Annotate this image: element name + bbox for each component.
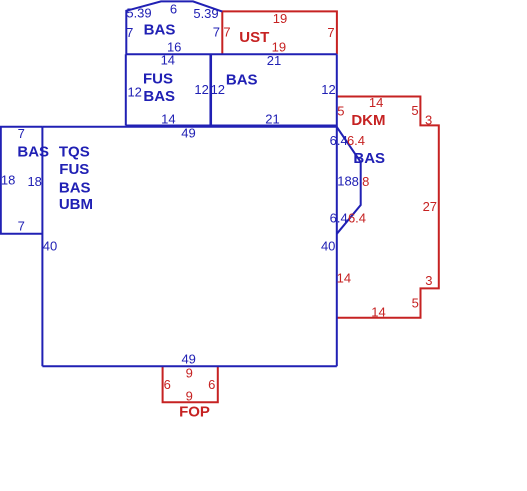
svg-text:9: 9 xyxy=(186,389,193,404)
svg-text:UST: UST xyxy=(239,29,269,46)
svg-text:7: 7 xyxy=(18,126,25,141)
svg-text:BAS: BAS xyxy=(17,144,49,161)
svg-text:49: 49 xyxy=(181,125,195,140)
svg-text:5: 5 xyxy=(412,295,419,310)
svg-text:14: 14 xyxy=(161,111,175,126)
svg-text:27: 27 xyxy=(423,199,437,214)
svg-text:6: 6 xyxy=(208,377,215,392)
svg-text:3: 3 xyxy=(425,273,432,288)
svg-text:BAS: BAS xyxy=(59,179,91,196)
svg-text:5: 5 xyxy=(337,104,344,119)
svg-text:40: 40 xyxy=(43,239,57,254)
svg-text:7: 7 xyxy=(18,219,25,234)
svg-text:8: 8 xyxy=(362,174,369,189)
svg-text:12: 12 xyxy=(321,82,335,97)
svg-text:BAS: BAS xyxy=(353,150,385,167)
room DKM outline (red) xyxy=(337,97,439,318)
svg-text:7: 7 xyxy=(327,25,334,40)
svg-text:14: 14 xyxy=(337,270,351,285)
room UST outline (red, 3 sides) xyxy=(222,11,337,54)
svg-text:21: 21 xyxy=(265,112,279,127)
svg-text:6.4: 6.4 xyxy=(348,210,366,225)
svg-text:7: 7 xyxy=(223,24,230,39)
svg-text:6.4: 6.4 xyxy=(330,133,348,148)
svg-text:BAS: BAS xyxy=(226,72,258,89)
svg-text:5.39: 5.39 xyxy=(126,5,151,20)
svg-text:BAS: BAS xyxy=(143,88,175,105)
svg-text:18: 18 xyxy=(337,174,351,189)
main room outline (blue) xyxy=(42,54,336,366)
svg-text:5: 5 xyxy=(411,103,418,118)
room BAS hexagon bump outline (blue) xyxy=(337,127,361,234)
svg-text:FOP: FOP xyxy=(179,404,210,421)
svg-text:7: 7 xyxy=(126,25,133,40)
svg-text:40: 40 xyxy=(321,238,335,253)
room FOP outline (red) xyxy=(163,366,218,402)
wall row2 top shared with pentagon bottom (blue) xyxy=(126,53,337,55)
svg-text:DKM: DKM xyxy=(351,112,385,129)
wall row2 bottom (blue) xyxy=(126,125,337,127)
svg-text:UBM: UBM xyxy=(59,196,93,213)
svg-text:19: 19 xyxy=(272,39,286,54)
svg-text:19: 19 xyxy=(273,11,287,26)
svg-text:6.4: 6.4 xyxy=(330,210,348,225)
svg-text:18: 18 xyxy=(1,172,15,187)
svg-text:8: 8 xyxy=(352,174,359,189)
svg-text:7: 7 xyxy=(213,24,220,39)
svg-text:12: 12 xyxy=(127,84,141,99)
svg-text:TQS: TQS xyxy=(59,144,90,161)
svg-text:12: 12 xyxy=(211,82,225,97)
wall divider between FUS/BAS and BAS rooms (blue, double) xyxy=(209,54,212,125)
svg-text:6.4: 6.4 xyxy=(347,133,365,148)
svg-text:5.39: 5.39 xyxy=(193,6,218,21)
svg-text:14: 14 xyxy=(371,304,385,319)
svg-text:49: 49 xyxy=(181,351,195,366)
svg-text:14: 14 xyxy=(161,52,175,67)
wall row2 left (blue) xyxy=(125,54,127,125)
svg-text:9: 9 xyxy=(186,366,193,381)
svg-text:6: 6 xyxy=(164,377,171,392)
room BAS pentagon outline (blue) xyxy=(126,1,222,54)
svg-text:12: 12 xyxy=(194,82,208,97)
svg-text:14: 14 xyxy=(369,95,383,110)
svg-text:FUS: FUS xyxy=(143,70,173,87)
svg-text:3: 3 xyxy=(425,112,432,127)
room BAS left annex outline (blue) xyxy=(1,127,43,234)
svg-text:FUS: FUS xyxy=(59,161,89,178)
svg-text:21: 21 xyxy=(267,53,281,68)
svg-text:BAS: BAS xyxy=(144,22,176,39)
svg-text:18: 18 xyxy=(27,174,41,189)
svg-text:6: 6 xyxy=(170,1,177,16)
